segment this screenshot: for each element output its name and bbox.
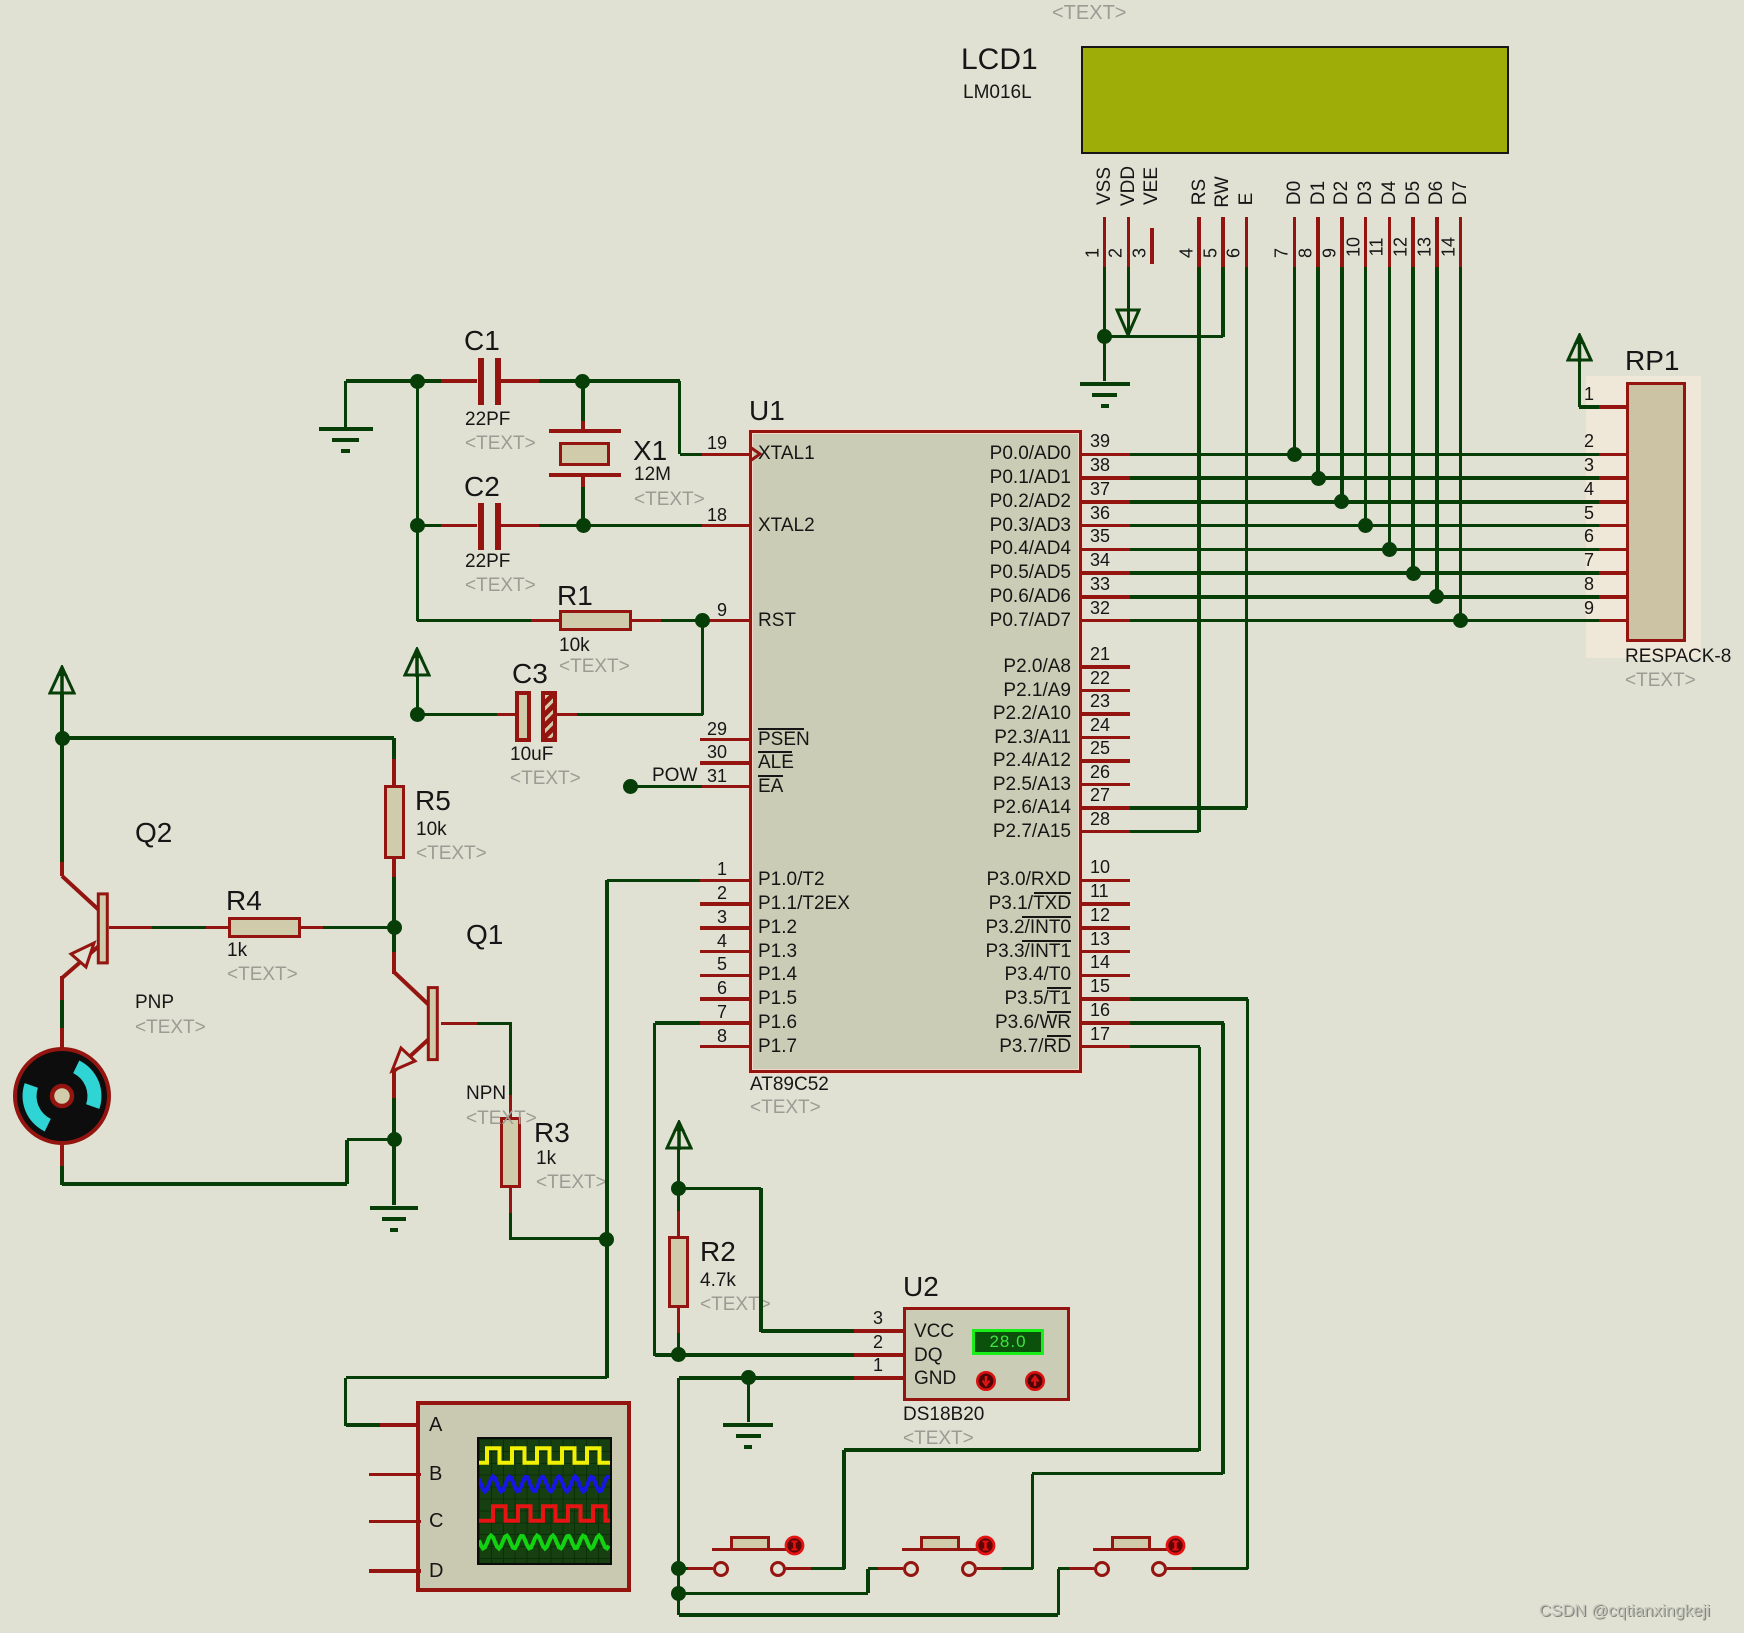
U1 pin 8 P1.7 stub [700, 1045, 749, 1049]
LCD pin label D4 [1379, 181, 1401, 205]
wire C2 to XTAL2 [539, 524, 703, 528]
label RESPACK-8 [1625, 646, 1731, 667]
LCD pin 13 D6 stub [1435, 217, 1439, 267]
label C2 value 22PF [465, 551, 510, 572]
U2 pin name GND [914, 1368, 956, 1389]
U1 pin name P2.6/A14 [671, 797, 1071, 818]
label C1 [464, 326, 500, 356]
U1 pin 32 P0.7/AD7 stub [1082, 619, 1130, 623]
wire R3 bottom [509, 1213, 513, 1240]
wire RS horizontal to P2.7 [1130, 830, 1199, 834]
wire P1.0 vertical [605, 880, 609, 1378]
U1 pin 30 ALE stub [700, 761, 749, 765]
power arrow C3 [416, 676, 420, 715]
ground below U2 [747, 1378, 751, 1423]
wire to Q1 emitter junction [347, 1138, 394, 1142]
RP1 pin number 9 [1194, 598, 1594, 618]
wire XTAL1 to chip [680, 453, 702, 457]
junction button2 rail [671, 1586, 686, 1601]
wire P0.4 to RP1 [1130, 548, 1599, 552]
wire C2 row left [417, 524, 440, 528]
label X1 TEXT [634, 489, 705, 510]
scope body [416, 1401, 631, 1592]
LCD pin label VEE [1141, 167, 1163, 205]
wire P3.7 horizontal [1130, 1045, 1201, 1049]
junction D4 [1382, 542, 1397, 557]
label RP1 TEXT [1625, 670, 1696, 691]
label R2 TEXT [700, 1294, 771, 1315]
LCD pin number 13 [1414, 237, 1435, 257]
wire D3 vertical [1364, 267, 1368, 526]
U1 pin 36 P0.3/AD3 stub [1082, 524, 1130, 528]
U1 pin name ALE [758, 752, 794, 773]
U1 pin name P2.5/A13 [671, 774, 1071, 795]
wire R1 row left [417, 619, 531, 623]
U1 pin number 13 [1090, 929, 1110, 949]
junction R2 bottom/DQ [671, 1347, 686, 1362]
label NPN [466, 1083, 506, 1104]
U1 pin 4 P1.3 stub [700, 950, 749, 954]
wire C1 to X1 junction [539, 379, 680, 383]
U1 pin number 33 [1090, 574, 1110, 594]
label R1 TEXT [559, 656, 630, 677]
power arrow R2 [665, 1120, 693, 1151]
U1 pin 1 P1.0/T2 stub [700, 879, 749, 883]
U1 pin 38 P0.1/AD1 stub [1082, 476, 1130, 480]
wire RP1 pin1 to power [1579, 405, 1598, 409]
label DS18B20 [903, 1404, 984, 1425]
U1 pin 16 P3.6/WR stub [1082, 1021, 1130, 1025]
U1 pin name P3.0/RXD [671, 869, 1071, 890]
LCD pin number 2 [1106, 248, 1127, 258]
U1 pin 31 EA stub [700, 785, 749, 789]
RP1 pin 9 stub [1599, 619, 1626, 623]
U1 pin name P2.1/A9 [671, 680, 1071, 701]
wire ground rail vertical [677, 1378, 681, 1615]
U1 pin number 26 [1090, 762, 1110, 782]
button 3 left contact [1094, 1561, 1110, 1577]
wire D5 vertical [1411, 267, 1415, 574]
capacitor C3 positive plate [515, 691, 531, 742]
RP1 pin number 7 [1194, 550, 1594, 570]
U1 pin 35 P0.4/AD4 stub [1082, 548, 1130, 552]
power-down arrow on VDD [1115, 308, 1141, 337]
U1 pin 13 P3.3/INT1 stub [1082, 950, 1130, 954]
junction R3/P1.0 [599, 1232, 614, 1247]
wire top rail to R5 [62, 736, 394, 740]
wire VCC from R2 junction [679, 1187, 761, 1191]
wire D4 vertical [1388, 267, 1392, 550]
scope pin A label [429, 1414, 442, 1436]
LCD pin label D6 [1426, 181, 1448, 205]
button 1 left contact [713, 1561, 729, 1577]
wire P0.6 to RP1 [1130, 595, 1599, 599]
wire P1.6 horizontal [655, 1021, 701, 1025]
U1 pin name P0.0/AD0 [671, 443, 1071, 464]
wire RS vertical [1197, 267, 1201, 832]
U1 pin 22 P2.1/A9 stub [1082, 689, 1130, 693]
junction D2 [1334, 494, 1349, 509]
U1 pin number 11 [1090, 881, 1109, 901]
U1 pin number 4 [327, 931, 727, 951]
U1 pin 33 P0.6/AD6 stub [1082, 595, 1130, 599]
button 1 left lead [679, 1567, 691, 1571]
LCD pin 6 E stub [1245, 217, 1249, 267]
label Q2 PNP [135, 992, 174, 1013]
temperature sensor U2 DS18B20 body [903, 1307, 1070, 1401]
button 3 cap [1111, 1536, 1151, 1551]
scope waveform B blue [479, 1477, 609, 1492]
label X1 value 12M [634, 464, 671, 485]
LCD pin number 11 [1367, 238, 1388, 257]
U1 pin number 32 [1090, 598, 1110, 618]
wire XTAL1 down [678, 381, 682, 454]
U1 pin name EA [758, 776, 783, 797]
power arrow RP1 [1566, 333, 1593, 363]
label R5 TEXT [416, 843, 487, 864]
crystal X1 bottom electrode [549, 473, 621, 477]
LCD pin label RW [1212, 177, 1234, 208]
U1 pin number 17 [1090, 1024, 1110, 1044]
wire Q2 emitter to motor [60, 976, 64, 1000]
watermark [1539, 1602, 1710, 1621]
U1 pin 34 P0.5/AD5 stub [1082, 571, 1130, 575]
capacitor C2 [441, 524, 478, 528]
U1 pin 21 P2.0/A8 stub [1082, 665, 1130, 669]
U2 pin number 3 [483, 1308, 883, 1328]
U1 pin number 39 [1090, 431, 1110, 451]
scope waveform D green [479, 1536, 609, 1549]
wire Q2 base to R4 [109, 926, 152, 930]
U1 pin 17 P3.7/RD stub [1082, 1045, 1130, 1049]
button 3 right contact [1151, 1561, 1167, 1577]
RP1 pin 4 stub [1599, 500, 1626, 504]
wire P3.7 jog vertical [842, 1450, 846, 1569]
U1 pin 24 P2.3/A11 stub [1082, 736, 1130, 740]
label R3 value 1k [536, 1148, 556, 1169]
junction RST [695, 613, 710, 628]
U1 pin 10 P3.0/RXD stub [1082, 879, 1130, 883]
label X1 [633, 436, 667, 466]
wire P3.5 vertical [1246, 999, 1250, 1569]
label R4 TEXT [227, 964, 298, 985]
wire rail down to Q2 [60, 738, 64, 862]
button 1 interactive marker [784, 1535, 806, 1557]
U1 pin name P3.7/RD [671, 1036, 1071, 1057]
LCD pin 7 D0 stub [1293, 217, 1297, 267]
label C2 TEXT [465, 575, 536, 596]
junction C2/X1 [576, 518, 591, 533]
wire P3.6 vertical [1221, 1023, 1225, 1475]
junction D3 [1358, 518, 1373, 533]
left rail C1-C2-R1 [416, 381, 420, 621]
wire C1 row [346, 379, 441, 383]
U1 pin number 10 [1090, 857, 1110, 877]
wire P1.0 horizontal [607, 879, 700, 883]
U1 pin name P0.3/AD3 [671, 515, 1071, 536]
U1 pin name P0.1/AD1 [671, 467, 1071, 488]
power arrow left rail [48, 665, 76, 696]
LCD LCD1 screen [1081, 46, 1509, 154]
RP1 pin 1 stub [1599, 405, 1626, 409]
node POW [623, 779, 638, 794]
wire D6 vertical [1435, 267, 1439, 597]
LCD pin label VSS [1094, 167, 1116, 205]
U1 pin name XTAL1 [758, 443, 815, 464]
resistor R2 [677, 1188, 681, 1211]
U1 pin name P2.2/A10 [671, 703, 1071, 724]
button 2 right lead [977, 1567, 1002, 1571]
label R3 [534, 1118, 570, 1148]
junction D6 [1429, 589, 1444, 604]
wire P3.6 jog horizontal [1032, 1472, 1223, 1476]
scope pin C stub [369, 1520, 421, 1524]
label R1 [557, 581, 593, 611]
scope pin B stub [369, 1473, 421, 1477]
U1 pin number 37 [1090, 479, 1110, 499]
label C1 TEXT [465, 433, 536, 454]
wire D0 vertical [1293, 267, 1297, 455]
U1 pin number 16 [1090, 1000, 1110, 1020]
U1 pin 27 P2.6/A14 stub [1082, 806, 1130, 810]
U1 pin name P3.1/TXD [671, 893, 1071, 914]
resistor R3 [500, 1117, 521, 1188]
wire P3.5 horizontal [1130, 997, 1249, 1001]
wire P0.2 to RP1 [1130, 500, 1599, 504]
U1 pin number 2 [327, 883, 727, 903]
U2 pin number 2 [483, 1332, 883, 1352]
LCD pin 3 VEE stub [1150, 228, 1154, 264]
U1 pin 15 P3.5/T1 stub [1082, 997, 1130, 1001]
U2 pin 3 VCC stub [854, 1329, 903, 1333]
RP1 pin 6 stub [1599, 548, 1626, 552]
wire Q1 base right [441, 1022, 477, 1026]
U1 pin 19 XTAL1 stub [700, 453, 749, 457]
label Q2 [135, 818, 172, 848]
U1 pin 12 P3.2/INT0 stub [1082, 926, 1130, 930]
U1 pin number 31 [327, 766, 727, 786]
button 2 right contact [961, 1561, 977, 1577]
label U1 TEXT [750, 1097, 821, 1118]
wire P1.6 vertical [653, 1023, 657, 1356]
LCD pin 12 D5 stub [1411, 217, 1415, 267]
LCD pin number 5 [1200, 248, 1221, 258]
U1 pin 6 P1.5 stub [700, 997, 749, 1001]
label AT89C52 [750, 1074, 829, 1095]
resistor R5 [392, 738, 396, 759]
U2 pin 1 GND stub [854, 1376, 903, 1380]
label C3 TEXT [510, 768, 581, 789]
U1 pin 29 PSEN stub [700, 738, 749, 742]
U2 pin 2 DQ stub [854, 1353, 903, 1357]
junction button1 rail [671, 1561, 686, 1576]
label C1 value 22PF [465, 409, 510, 430]
U1 pin name P3.6/WR [671, 1012, 1071, 1033]
LCD pin number 4 [1177, 248, 1198, 258]
label Q1 [466, 920, 503, 950]
wire P0.3 to RP1 [1130, 524, 1599, 528]
U1 pin name P3.5/T1 [671, 988, 1071, 1009]
LCD pin label D5 [1403, 181, 1425, 205]
U1 pin number 6 [327, 978, 727, 998]
LCD pin label VDD [1118, 166, 1140, 206]
U1 pin name P2.7/A15 [671, 821, 1071, 842]
LCD pin 10 D3 stub [1364, 217, 1368, 267]
U1 pin name XTAL2 [758, 515, 815, 536]
U1 pin number 19 [327, 433, 727, 453]
U2 display 28.0 [972, 1329, 1044, 1355]
wire Q1 emitter down [392, 1071, 396, 1098]
U1 pin number 5 [327, 954, 727, 974]
label Q1 TEXT [466, 1108, 537, 1129]
U1 pin number 1 [327, 859, 727, 879]
wire P1.0 to scope horizontal [346, 1376, 607, 1380]
U1 pin name P0.6/AD6 [671, 586, 1071, 607]
wire E vertical [1245, 267, 1249, 809]
U1 pin name PSEN [758, 729, 810, 750]
transistor Q2 PNP [40, 860, 130, 990]
RP1 pin number 6 [1194, 526, 1594, 546]
U1 pin number 34 [1090, 550, 1110, 570]
label Q2 TEXT [135, 1017, 206, 1038]
ground below Q1 [392, 1140, 396, 1206]
U1 pin 11 P3.1/TXD stub [1082, 902, 1130, 906]
resistor R1 [531, 619, 559, 623]
U1 pin number 9 [327, 600, 727, 620]
button 3 interactive marker [1165, 1535, 1187, 1557]
LCD pin label D0 [1284, 181, 1306, 205]
wire bottom left horizontal [62, 1182, 347, 1186]
U1 pin name P1.7 [758, 1036, 797, 1057]
scope pin C label [429, 1510, 443, 1532]
label U2 [903, 1272, 939, 1302]
scope screen [477, 1437, 612, 1565]
RP1 highlight [1586, 376, 1701, 658]
label RP1 [1625, 346, 1679, 376]
U1 pin name P2.3/A11 [671, 727, 1071, 748]
U1 pin name P2.0/A8 [671, 656, 1071, 677]
U1 pin name P0.4/AD4 [671, 538, 1071, 559]
U1 pin name P1.1/T2EX [758, 893, 850, 914]
wire P3.6 jog vertical [1031, 1474, 1035, 1569]
label R3 TEXT [536, 1172, 607, 1193]
U1 pin number 24 [1090, 715, 1110, 735]
junction VSS [1097, 329, 1112, 344]
wire P3.7 vertical [1198, 1047, 1202, 1451]
wire POW to EA [630, 785, 702, 789]
ground top-left [344, 381, 348, 427]
U2 knob 1 down [975, 1370, 997, 1392]
label U2 TEXT [903, 1428, 974, 1449]
transistor Q1 NPN [376, 958, 456, 1083]
U1 pin number 38 [1090, 455, 1110, 475]
junction C1/X1 [575, 374, 590, 389]
label R5 value 10k [416, 819, 447, 840]
wire C3 left [497, 713, 516, 717]
LCD pin number 6 [1224, 248, 1245, 258]
junction left rail [55, 731, 70, 746]
junction C2 rail [410, 518, 425, 533]
label R4 value 1k [227, 940, 247, 961]
wire P0.0 to RP1 [1130, 453, 1599, 457]
LCD pin 14 D7 stub [1459, 217, 1463, 267]
RP1 pin number 5 [1194, 503, 1594, 523]
resistor R4 [206, 926, 228, 930]
wire DQ row [655, 1353, 855, 1357]
wire VSS vertical [1103, 267, 1107, 337]
U1 pin 25 P2.4/A12 stub [1082, 759, 1130, 763]
wire P3.7 jog horizontal [844, 1448, 1199, 1452]
button 1 actuator bar [712, 1548, 787, 1551]
wire RST stub join [702, 619, 704, 623]
LCD pin 5 RW stub [1221, 217, 1225, 267]
LCD pin 4 RS stub [1197, 217, 1201, 267]
junction D1 [1311, 471, 1326, 486]
label POW [652, 765, 697, 786]
crystal X1 body [559, 442, 610, 466]
U1 pin number 14 [1090, 952, 1110, 972]
U1 pin 28 P2.7/A15 stub [1082, 830, 1130, 834]
LCD pin label D2 [1331, 181, 1353, 205]
U1 pin 26 P2.5/A13 stub [1082, 783, 1130, 787]
U1 pin number 28 [1090, 809, 1110, 829]
label R2 [700, 1237, 736, 1267]
button 3 actuator bar [1093, 1548, 1168, 1551]
U1 pin name P1.3 [758, 941, 797, 962]
label C2 [464, 472, 500, 502]
LCD pin 8 D1 stub [1316, 217, 1320, 267]
wire rail to button2 [679, 1592, 869, 1596]
wire riser [345, 1140, 349, 1184]
capacitor C3 negative plate [541, 691, 557, 742]
button 2 left contact [903, 1561, 919, 1577]
LCD pin number 9 [1319, 248, 1340, 258]
wire RST to C3 vertical [701, 621, 705, 715]
junction Q1 emitter/ground [387, 1132, 402, 1147]
RP1 pin 3 stub [1599, 476, 1626, 480]
U1 pin number 8 [327, 1026, 727, 1046]
label LM016L [963, 82, 1032, 103]
wire motor bottom [60, 1142, 64, 1166]
LCD pin number 14 [1438, 237, 1459, 257]
wire P0.5 to RP1 [1130, 571, 1599, 575]
LCD pin number 3 [1129, 248, 1150, 258]
wire P3.6 horizontal [1130, 1021, 1224, 1025]
wire P0.7 to RP1 [1130, 619, 1599, 623]
LCD pin 2 VDD stub [1127, 217, 1131, 267]
label R1 value 10k [559, 635, 590, 656]
button 2 cap [920, 1536, 960, 1551]
ground below LCD [1080, 382, 1130, 386]
U1 pin name P1.0/T2 [758, 869, 825, 890]
wire GND row [679, 1376, 855, 1380]
U2 pin name DQ [914, 1345, 943, 1366]
label LCD1 [961, 44, 1038, 76]
U1 pin number 23 [1090, 691, 1110, 711]
U1 pin number 29 [327, 719, 727, 739]
LCD pin label D3 [1355, 181, 1377, 205]
wire rail to button3 [679, 1613, 1059, 1617]
LCD pin number 12 [1391, 237, 1412, 257]
U1 pin 14 P3.4/T0 stub [1082, 974, 1130, 978]
motor [11, 1045, 113, 1147]
junction D0 [1287, 447, 1302, 462]
junction D5 [1406, 566, 1421, 581]
RP1 pin number 8 [1194, 574, 1594, 594]
wire D1 vertical [1316, 267, 1320, 479]
label C3 [512, 659, 548, 689]
capacitor C1 [441, 379, 478, 383]
